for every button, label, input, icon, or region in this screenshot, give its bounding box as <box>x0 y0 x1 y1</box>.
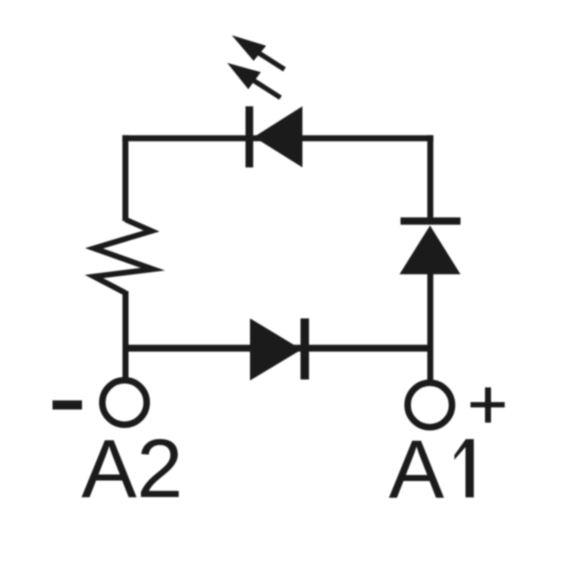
svg-text:A2: A2 <box>81 422 183 515</box>
svg-text:A: A <box>389 422 445 515</box>
